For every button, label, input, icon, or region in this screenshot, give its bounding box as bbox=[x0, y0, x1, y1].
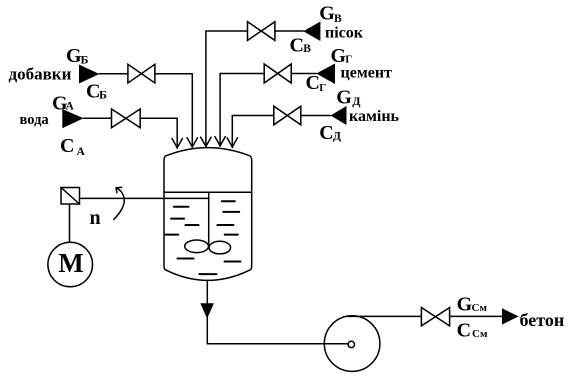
svg-text:M: M bbox=[58, 248, 83, 278]
svg-text:пісок: пісок bbox=[325, 25, 364, 42]
svg-text:G: G bbox=[331, 45, 347, 67]
svg-text:бетон: бетон bbox=[520, 310, 565, 330]
svg-text:Б: Б bbox=[81, 53, 89, 67]
svg-text:камінь: камінь bbox=[349, 108, 400, 125]
svg-text:В: В bbox=[303, 43, 311, 55]
svg-text:G: G bbox=[457, 293, 473, 315]
svg-text:См: См bbox=[472, 302, 488, 314]
svg-text:n: n bbox=[90, 207, 101, 229]
svg-text:добавки: добавки bbox=[9, 65, 72, 84]
svg-text:C: C bbox=[319, 122, 333, 144]
svg-text:C: C bbox=[306, 72, 320, 94]
svg-text:Г: Г bbox=[345, 54, 352, 66]
svg-text:Б: Б bbox=[99, 88, 107, 102]
svg-text:C: C bbox=[290, 34, 304, 56]
svg-text:G: G bbox=[319, 3, 335, 25]
svg-text:цемент: цемент bbox=[341, 65, 393, 82]
svg-text:G: G bbox=[336, 87, 352, 109]
svg-text:C: C bbox=[457, 319, 471, 341]
svg-text:вода: вода bbox=[20, 112, 50, 128]
svg-text:См: См bbox=[472, 328, 488, 340]
svg-text:А: А bbox=[66, 101, 75, 113]
svg-text:А: А bbox=[77, 146, 86, 158]
svg-text:Д: Д bbox=[352, 94, 361, 108]
svg-text:C: C bbox=[60, 135, 74, 157]
svg-text:Г: Г bbox=[319, 82, 326, 94]
svg-text:В: В bbox=[334, 13, 342, 25]
svg-text:Д: Д bbox=[333, 131, 341, 143]
